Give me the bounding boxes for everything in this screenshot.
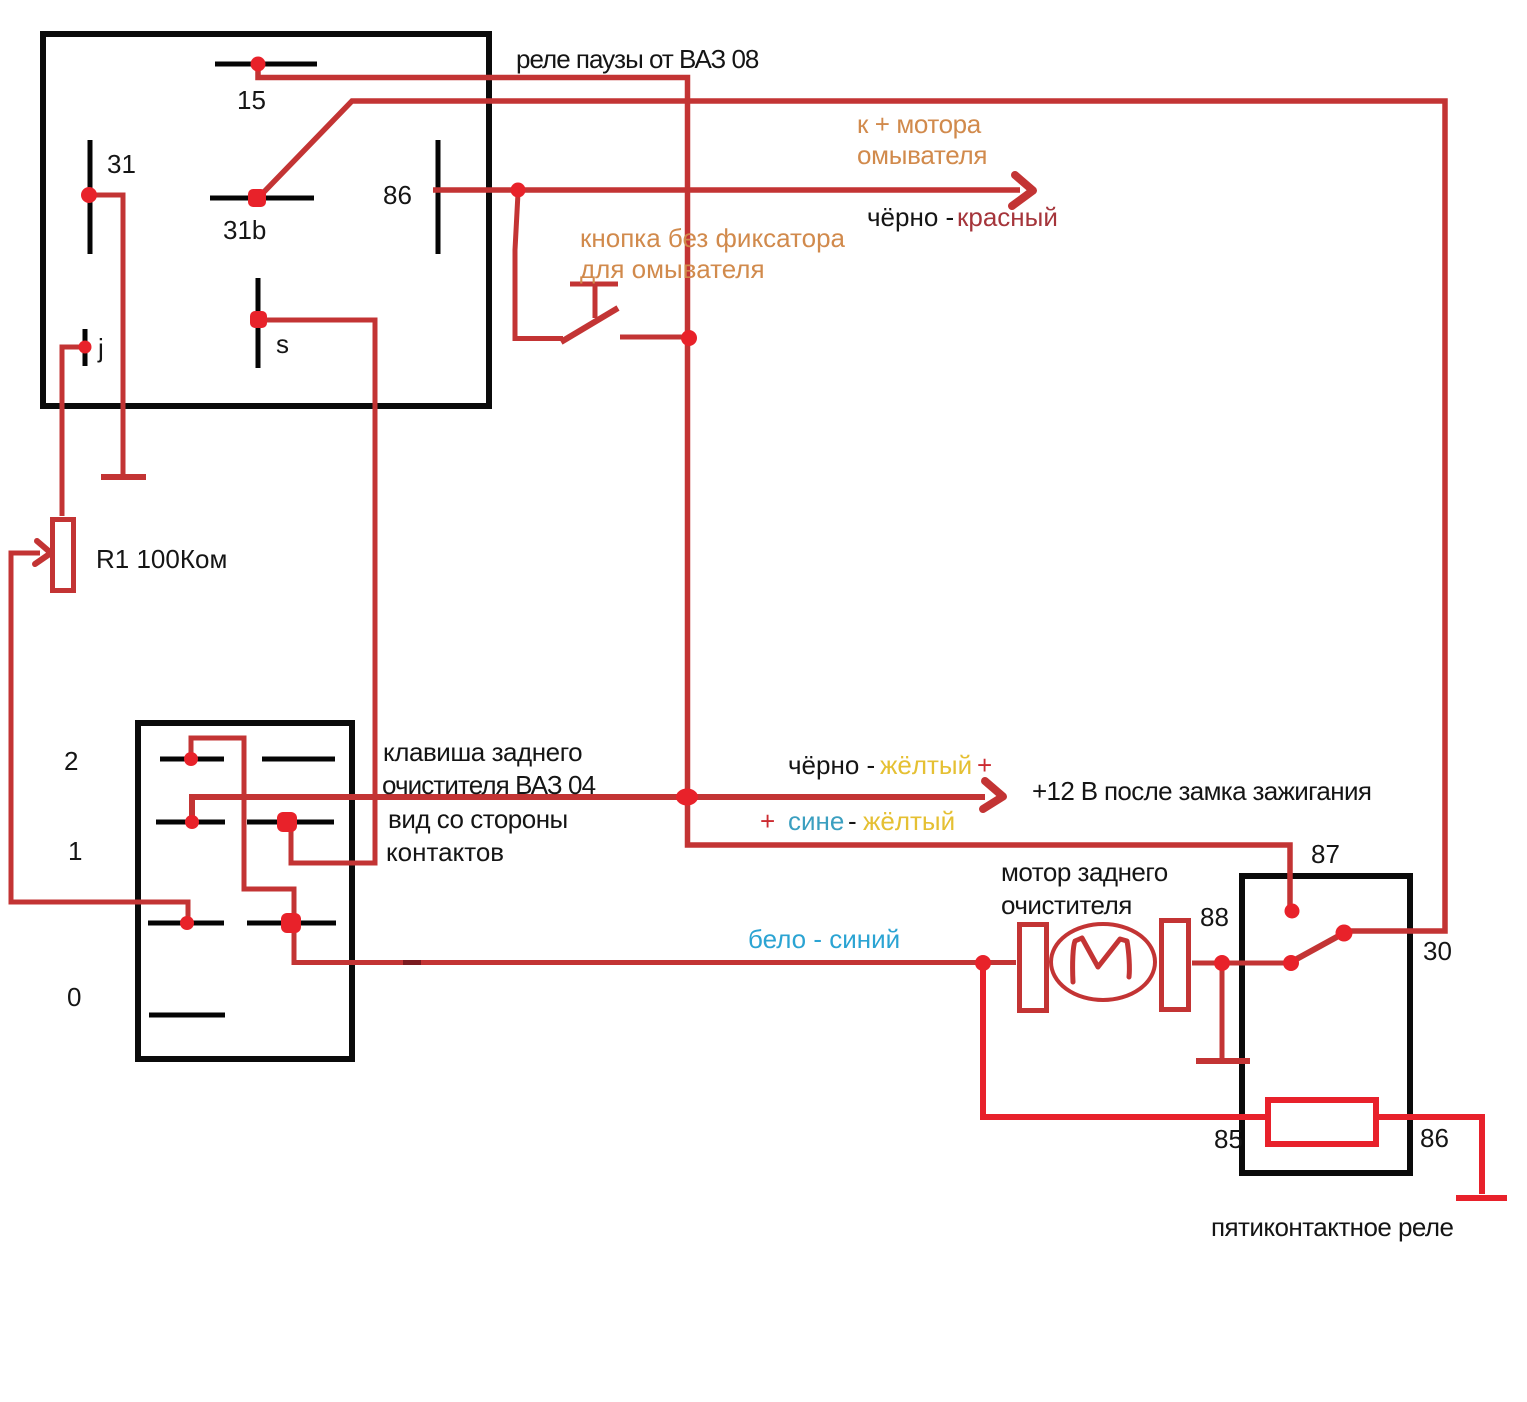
svg-text:бело - синий: бело - синий [748, 924, 900, 954]
svg-text:жёлтый: жёлтый [880, 750, 972, 780]
svg-text:0: 0 [67, 982, 81, 1012]
svg-text:клавиша заднего: клавиша заднего [383, 737, 582, 767]
svg-text:чёрно -: чёрно - [788, 750, 875, 780]
svg-text:31: 31 [107, 149, 136, 179]
svg-text:+12 В после замка зажигания: +12 В после замка зажигания [1032, 776, 1371, 806]
svg-text:красный: красный [957, 202, 1058, 232]
svg-text:31b: 31b [223, 215, 266, 245]
svg-text:j: j [97, 333, 104, 363]
svg-text:очистителя ВАЗ 04: очистителя ВАЗ 04 [382, 770, 596, 800]
svg-text:86: 86 [383, 180, 412, 210]
svg-text:для омывателя: для омывателя [580, 254, 765, 284]
svg-text:87: 87 [1311, 839, 1340, 869]
svg-text:контактов: контактов [386, 837, 504, 867]
svg-text:реле паузы от ВАЗ 08: реле паузы от ВАЗ 08 [516, 44, 759, 74]
svg-text:86: 86 [1420, 1123, 1449, 1153]
svg-text:15: 15 [237, 85, 266, 115]
svg-text:очистителя: очистителя [1001, 890, 1132, 920]
svg-text:85: 85 [1214, 1124, 1243, 1154]
svg-text:омывателя: омывателя [857, 140, 987, 170]
svg-text:88: 88 [1200, 902, 1229, 932]
svg-text:вид со стороны: вид со стороны [388, 804, 568, 834]
svg-text:+: + [977, 750, 992, 780]
svg-text:чёрно -: чёрно - [867, 202, 954, 232]
svg-text:1: 1 [68, 836, 82, 866]
svg-text:к + мотора: к + мотора [857, 109, 982, 139]
svg-text:пятиконтактное реле: пятиконтактное реле [1211, 1212, 1454, 1242]
svg-text:R1 100Ком: R1 100Ком [96, 544, 227, 574]
svg-text:+: + [760, 806, 775, 836]
svg-text:2: 2 [64, 746, 78, 776]
svg-text:кнопка без фиксатора: кнопка без фиксатора [580, 223, 846, 253]
svg-text:мотор заднего: мотор заднего [1001, 857, 1168, 887]
svg-text:30: 30 [1423, 936, 1452, 966]
svg-text:-: - [848, 806, 857, 836]
svg-text:сине: сине [788, 806, 844, 836]
svg-text:s: s [276, 329, 289, 359]
svg-text:жёлтый: жёлтый [863, 806, 955, 836]
